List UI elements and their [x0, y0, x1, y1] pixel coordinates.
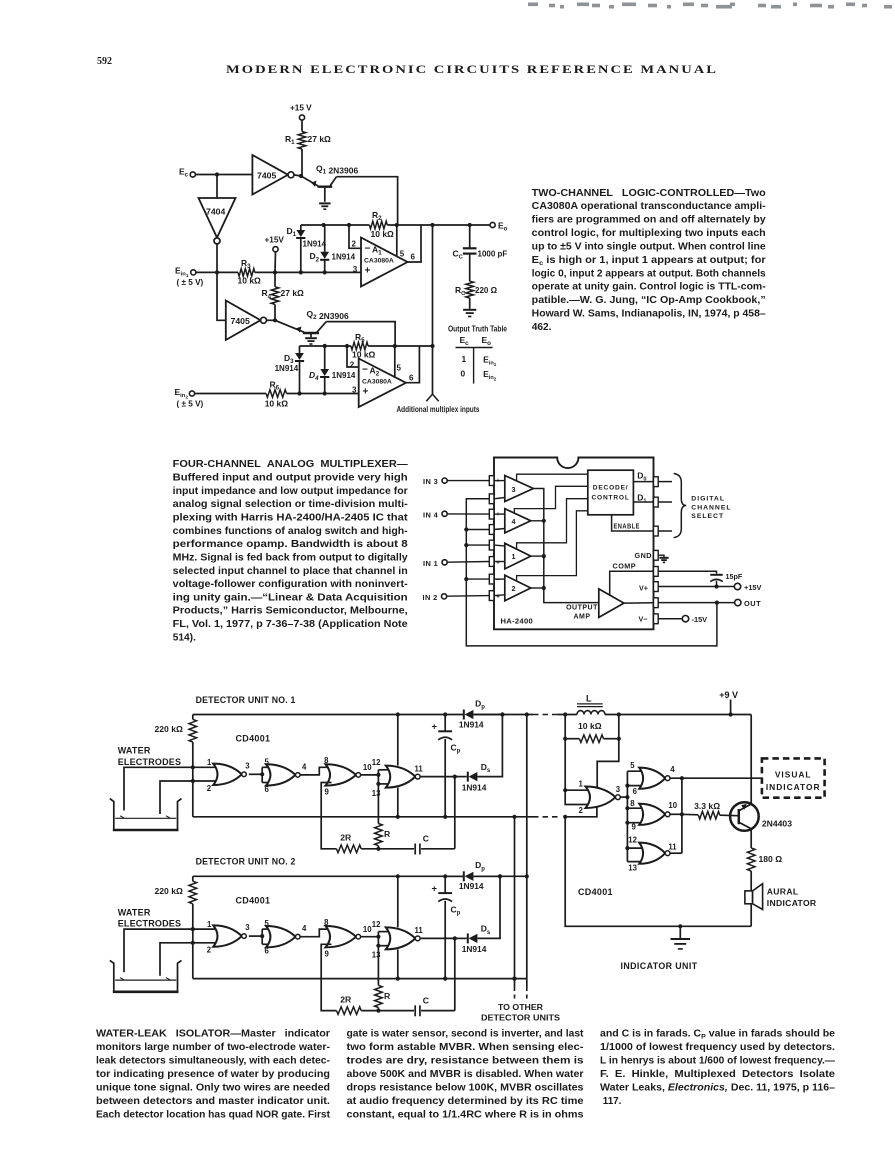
label 15pF — [726, 572, 743, 581]
label 220 kOhm unit 1 — [155, 724, 184, 734]
svg-text:Output Truth Table: Output Truth Table — [448, 323, 507, 333]
label R6 — [270, 380, 280, 392]
svg-text:4: 4 — [512, 517, 516, 526]
wire pin2 junction to bottom rail unit 1 — [192, 781, 194, 817]
label R1 — [285, 134, 295, 146]
wire 220k junction to pin2 unit 1 — [191, 767, 195, 783]
svg-text:5: 5 — [400, 249, 405, 258]
svg-text:+: + — [496, 594, 500, 600]
wire pin2 junction to bottom rail unit 2 — [192, 943, 194, 979]
svg-text:220 kΩ: 220 kΩ — [155, 724, 184, 734]
wire IN3 to pin — [447, 480, 489, 482]
svg-text:Water Leaks, Electronics, Dec.: Water Leaks, Electronics, Dec. 11, 1975,… — [600, 1083, 836, 1094]
wire top rail unit 2 — [193, 874, 529, 878]
svg-text:WATER: WATER — [118, 907, 151, 917]
svg-text:Dp: Dp — [475, 698, 485, 710]
svg-text:1: 1 — [512, 552, 516, 561]
svg-text:10: 10 — [668, 801, 677, 810]
label 10 kOhm R5 — [352, 350, 376, 360]
wire gate1 output to gate2 inputs unit 2 — [249, 929, 272, 944]
wire 220k junction to pin2 unit 2 — [191, 929, 195, 945]
wire top rail unit 1 — [193, 712, 533, 716]
svg-text:combines functions of analog s: combines functions of analog switch and … — [173, 526, 408, 537]
label CD4001 unit 1 — [236, 734, 271, 744]
svg-text:3.3 kΩ: 3.3 kΩ — [694, 801, 720, 811]
text column 1 WATER-LEAK ISOLATOR — [96, 1029, 331, 1121]
svg-text:AURAL: AURAL — [767, 886, 799, 896]
svg-text:9: 9 — [632, 822, 637, 831]
resistor 220k unit 1 — [189, 715, 197, 770]
op-amp A2 CA3080A — [359, 359, 406, 408]
label TO OTHER DETECTOR UNITS — [481, 1002, 560, 1022]
wire Ein1 row left — [196, 271, 238, 273]
resistor R unit 1 — [375, 784, 383, 849]
svg-text:27 kΩ: 27 kΩ — [281, 288, 305, 298]
svg-text:−: − — [365, 244, 371, 255]
svg-text:6: 6 — [411, 253, 416, 262]
pin COMP with wire — [610, 567, 717, 596]
svg-text:2: 2 — [207, 946, 212, 955]
wire electrode 1 unit 1 — [124, 767, 220, 810]
svg-text:D4: D4 — [309, 370, 319, 382]
svg-text:FOUR-CHANNEL ANALOG MULTIPLE: FOUR-CHANNEL ANALOG MULTIPLEXER— — [173, 459, 409, 470]
svg-text:FL, Vol. 1, 1977, p 7-36–7-38: FL, Vol. 1, 1977, p 7-36–7-38 (Applicati… — [173, 619, 408, 630]
NOR gate 4 unit 1 — [386, 766, 420, 788]
svg-text:gate is water sensor, second i: gate is water sensor, second is inverter… — [347, 1029, 585, 1040]
wire indicator ground loop — [565, 817, 751, 929]
svg-text:trodes are dry, resistance bet: trodes are dry, resistance between them … — [347, 1056, 585, 1067]
wire speaker to ground loop — [750, 904, 752, 927]
NOR gate 2 unit 2 — [266, 926, 300, 947]
node IN 4 terminal — [423, 510, 447, 519]
resistor R1 27k — [298, 132, 306, 150]
node Ein2 terminal — [175, 387, 195, 401]
svg-text:CONTROL: CONTROL — [591, 495, 629, 502]
output truth table — [448, 323, 507, 383]
wire 2R to R junction unit 1 — [361, 847, 380, 851]
svg-text:+: + — [432, 722, 438, 733]
wire select line to amp 2 — [517, 511, 588, 581]
svg-text:−: − — [362, 365, 368, 376]
label 180 Ohm — [759, 854, 783, 864]
svg-text:+15 V: +15 V — [290, 104, 312, 113]
svg-text:( ± 5 V): ( ± 5 V) — [177, 278, 204, 287]
wire gate A VSS to bottom rail — [563, 808, 597, 819]
resistor 3.3k — [698, 811, 719, 819]
label COMP — [613, 562, 637, 571]
node Ec input terminal — [179, 167, 195, 179]
svg-text:at audio frequency determined: at audio frequency determined by its RC … — [347, 1096, 585, 1107]
svg-text:10 kΩ: 10 kΩ — [371, 229, 395, 239]
label 220 Ohm — [475, 286, 498, 295]
svg-text:input impedance and low output: input impedance and low output impedance… — [173, 486, 408, 497]
svg-text:1N914: 1N914 — [332, 253, 356, 262]
svg-text:MODERN ELECTRONIC CIRCUITS REF: MODERN ELECTRONIC CIRCUITS REFERENCE MAN… — [226, 64, 718, 76]
label 1N914 D2 — [332, 253, 356, 262]
svg-text:+15V: +15V — [744, 583, 762, 592]
svg-text:L: L — [586, 693, 592, 703]
label Ds unit 1 — [481, 762, 491, 774]
wire VSS from gate 4 unit 1 — [396, 788, 400, 819]
pin labels gate 4 unit 2 — [372, 920, 424, 960]
op-amp A1 CA3080A — [361, 238, 408, 287]
wire bus stub pin9 — [627, 822, 645, 824]
text column 2 — [347, 1029, 585, 1121]
svg-text:unique tone signal. Only two w: unique tone signal. Only two wires are n… — [96, 1083, 330, 1094]
label R unit 1 — [384, 829, 391, 839]
svg-text:DETECTOR UNIT NO. 2: DETECTOR UNIT NO. 2 — [196, 857, 296, 867]
svg-text:11: 11 — [668, 843, 677, 852]
svg-text:12: 12 — [372, 920, 381, 929]
svg-text:ELECTRODES: ELECTRODES — [118, 919, 182, 929]
wire output bus down to additional multiplex inputs — [432, 225, 434, 394]
wire inter-unit line B dashes — [526, 987, 528, 1000]
svg-text:CA3080A: CA3080A — [364, 258, 394, 265]
label 3.3 kOhm — [694, 801, 720, 811]
wire A1 bias row — [301, 223, 490, 227]
label L — [586, 693, 592, 703]
label D2 — [310, 251, 320, 263]
label 220 kOhm unit 2 — [155, 886, 184, 896]
pin OUT with wire — [624, 598, 735, 608]
svg-text:ENABLE: ENABLE — [614, 523, 641, 530]
svg-text:10 kΩ: 10 kΩ — [265, 399, 289, 409]
wire select line to amp 4 — [514, 486, 588, 513]
wire bus stub pin12 — [627, 847, 645, 849]
svg-text:DIGITAL: DIGITAL — [691, 496, 725, 503]
NOR gate C indicator — [639, 804, 670, 825]
wire gate3 pin9 to 2R unit 2 — [321, 944, 336, 1010]
wire gate3 output to gate4 inputs unit 1 — [361, 770, 392, 786]
text block TWO-CHANNEL LOGIC-CONTROLLED — [532, 188, 766, 333]
NOR gate D indicator — [639, 843, 670, 864]
wire 2N4403 collector to 180 ohm — [750, 829, 752, 848]
pin GND — [635, 550, 664, 560]
svg-text:two form astable MVBR. When se: two form astable MVBR. When sensing elec… — [347, 1042, 584, 1053]
svg-text:Products,” Harris Semiconducto: Products,” Harris Semiconductor, Melbour… — [173, 606, 408, 617]
svg-text:−: − — [496, 527, 500, 533]
svg-text:7404: 7404 — [206, 207, 225, 217]
wire bottom rail dashes to indicator — [533, 816, 558, 818]
label Additional multiplex inputs — [397, 404, 480, 414]
pin labels gate D — [628, 836, 677, 873]
diode D3 1N914 — [295, 346, 304, 396]
svg-text:Eo: Eo — [482, 335, 492, 347]
wire gate4 output unit 1 — [421, 776, 467, 778]
svg-text:Ein2: Ein2 — [175, 387, 189, 401]
node +15V terminal for R4 — [265, 235, 285, 251]
wire gate3 pin9 to 2R unit 1 — [321, 783, 336, 849]
label Cc — [453, 249, 464, 261]
svg-text:D1: D1 — [287, 226, 297, 238]
label WATER ELECTRODES unit 2 — [118, 907, 182, 928]
svg-text:514).: 514). — [173, 632, 196, 643]
page number 592 — [97, 56, 112, 67]
svg-text:6: 6 — [265, 947, 270, 956]
svg-text:+: + — [496, 479, 500, 485]
svg-text:1N914: 1N914 — [459, 881, 484, 891]
svg-text:( ± 5 V): ( ± 5 V) — [177, 400, 204, 409]
svg-text:1: 1 — [207, 758, 212, 767]
svg-text:1: 1 — [462, 354, 467, 364]
label OUTPUT AMP — [566, 605, 598, 621]
wire A2 bias row — [300, 344, 435, 348]
svg-text:5: 5 — [397, 364, 402, 373]
capacitor Cc 1000pF — [463, 225, 477, 281]
label Rc — [455, 285, 466, 297]
svg-text:+15V: +15V — [265, 235, 285, 244]
svg-text:INDICATOR: INDICATOR — [766, 782, 821, 792]
diode Ds 1N914 unit 1 — [468, 712, 505, 781]
wire +15V to R1 — [301, 120, 303, 131]
svg-text:analog signal selection or tim: analog signal selection or time-division… — [173, 499, 408, 510]
diode Dp 1N914 unit 2 — [445, 871, 500, 881]
beaker water sensor unit 2 — [110, 960, 182, 991]
svg-text:7405: 7405 — [231, 316, 250, 326]
label Dp unit 2 — [475, 860, 485, 872]
svg-text:11: 11 — [415, 926, 424, 935]
label + Cp unit 1 — [432, 722, 438, 733]
pin D0 with wire — [633, 477, 672, 487]
svg-text:8: 8 — [630, 799, 635, 808]
capacitor C unit 1 — [378, 844, 454, 855]
NOR gate 1 unit 1 — [213, 764, 246, 785]
resistor R2 10k — [369, 221, 387, 229]
svg-text:5: 5 — [265, 919, 270, 928]
resistor R6 10k — [266, 390, 286, 398]
label 1N914 Dp unit 2 — [459, 881, 484, 891]
resistor Rc 220 ohm — [466, 281, 474, 309]
pin 2 label A1 — [352, 239, 357, 248]
svg-text:10 kΩ: 10 kΩ — [352, 350, 376, 360]
svg-text:voltage-follower configuration: voltage-follower configuration with noni… — [173, 579, 408, 590]
svg-text:L in henrys is about 1/600 of: L in henrys is about 1/600 of lowest fre… — [600, 1056, 835, 1067]
svg-text:Cp: Cp — [451, 743, 461, 755]
svg-text:R3: R3 — [241, 258, 251, 270]
wire feedback bus left — [464, 499, 717, 646]
wire VSS from gate 4 unit 2 — [396, 949, 400, 980]
label CD4001 indicator — [578, 887, 613, 897]
box VISUAL INDICATOR — [762, 758, 825, 797]
wire IN4 to pin — [447, 513, 489, 515]
svg-text:2: 2 — [579, 806, 584, 815]
svg-text:IN 1: IN 1 — [423, 559, 438, 568]
svg-text:0: 0 — [461, 368, 466, 378]
label 1000 pF — [478, 250, 508, 259]
svg-text:Ein1: Ein1 — [483, 355, 497, 368]
wire 7405 second output to Q2 — [267, 319, 276, 321]
label 2N4403 — [762, 818, 792, 828]
svg-text:SELECT: SELECT — [691, 513, 724, 520]
wire gate C output — [670, 813, 682, 815]
label 10 kOhm R3 — [238, 276, 262, 286]
wire feedback stub amp2 minus — [466, 578, 489, 580]
label INDICATOR UNIT — [621, 961, 698, 971]
svg-text:Ec is high or 1, input 1 appea: Ec is high or 1, input 1 appears at outp… — [532, 255, 766, 267]
pin 3 label A2 — [352, 385, 357, 394]
svg-text:IN 2: IN 2 — [423, 593, 438, 602]
label 10 kOhm indicator — [578, 721, 602, 731]
svg-text:C: C — [423, 834, 429, 844]
svg-text:VISUAL: VISUAL — [775, 769, 812, 779]
svg-text:leak detectors simultaneously,: leak detectors simultaneously, with each… — [96, 1056, 330, 1067]
wire indicator input bus — [625, 771, 629, 861]
wire Ein2 to R6 — [195, 393, 267, 395]
wire bus stub pin13 — [627, 861, 645, 863]
svg-text:DETECTOR UNIT NO. 1: DETECTOR UNIT NO. 1 — [196, 695, 296, 705]
wire gate output bus — [680, 778, 684, 853]
amplifier 4 HA-2400 — [494, 509, 531, 534]
pin V+ with wire to +15V — [639, 582, 734, 593]
label 27 kOhm R4 — [281, 288, 305, 298]
svg-text:1N914: 1N914 — [303, 239, 327, 248]
scan artifact dashes at top edge — [528, 3, 892, 9]
svg-text:D2: D2 — [310, 251, 320, 263]
svg-text:9: 9 — [325, 949, 330, 958]
transistor 2N4403 — [720, 802, 759, 831]
resistor R3 10k — [238, 269, 255, 277]
svg-text:Q1 2N3906: Q1 2N3906 — [316, 164, 358, 176]
svg-text:2R: 2R — [340, 833, 352, 843]
svg-text:Each detector location has qua: Each detector location has quad NOR gate… — [96, 1110, 331, 1121]
wire bus stub pin5 — [627, 770, 645, 772]
arrow additional multiplex inputs — [426, 394, 438, 401]
svg-text:tor indicating presence of wat: tor indicating presence of water by prod… — [96, 1069, 330, 1080]
wire inter-unit line A dashes — [514, 987, 516, 1000]
ground at GND pin — [659, 558, 668, 563]
wire 2N4403 emitter to rail — [750, 715, 752, 805]
node OUT terminal — [735, 599, 762, 608]
svg-text:WATER: WATER — [118, 746, 151, 756]
wire electrode 1 unit 2 — [124, 929, 220, 972]
pin 2 label A2 — [350, 361, 355, 370]
svg-text:12: 12 — [628, 836, 637, 845]
svg-text:performance opamp. Bandwidth i: performance opamp. Bandwidth is about 8 — [173, 539, 408, 550]
svg-text:+: + — [496, 512, 500, 518]
svg-text:HA-2400: HA-2400 — [501, 617, 534, 626]
svg-text:DECODE/: DECODE/ — [593, 485, 629, 492]
svg-text:R: R — [384, 991, 391, 1001]
wire Ec to 7405 input — [195, 172, 252, 176]
svg-text:3: 3 — [616, 785, 621, 794]
capacitor C unit 2 — [378, 1005, 454, 1016]
pin 3 label A1 — [353, 265, 358, 274]
wire gate2 output to gate3 pin8 unit 2 — [300, 929, 331, 937]
node +15V terminal for R1 — [290, 104, 312, 121]
label Cp unit 2 — [451, 904, 461, 916]
pin labels gate 4 unit 1 — [372, 758, 424, 798]
svg-text:3: 3 — [245, 761, 250, 770]
pin labels gate A — [579, 779, 621, 815]
svg-text:3: 3 — [352, 385, 357, 394]
NOR gate 1 unit 2 — [213, 925, 246, 946]
wire feedback stub amp1 minus — [466, 544, 489, 546]
label AURAL INDICATOR — [767, 886, 817, 908]
wire Ein1 row right to A1 pin3 — [255, 270, 361, 274]
svg-text:TO OTHER: TO OTHER — [498, 1002, 544, 1012]
wire A1 output pin6 up to row — [408, 225, 422, 262]
label C unit 1 — [423, 834, 429, 844]
NOR gate B indicator — [639, 768, 670, 789]
wire 7405 output to Q1 emitter node — [294, 175, 301, 176]
svg-text:2: 2 — [207, 784, 212, 793]
node -15V terminal — [682, 615, 707, 624]
diode Ds 1N914 unit 2 — [468, 874, 502, 943]
svg-text:4: 4 — [670, 765, 675, 774]
label DETECTOR UNIT NO. 1 — [196, 695, 296, 705]
node IN 1 terminal — [423, 559, 447, 568]
svg-text:1/1000 of lowest frequency use: 1/1000 of lowest frequency used by detec… — [600, 1042, 835, 1053]
pin 5 label A2 — [397, 364, 402, 373]
svg-text:CA3080A: CA3080A — [362, 379, 392, 386]
wire C up to gate4 output unit 1 — [453, 775, 457, 849]
pin 5 label A1 — [400, 249, 405, 258]
svg-text:+: + — [363, 387, 369, 398]
svg-text:1N914: 1N914 — [462, 782, 487, 792]
svg-text:constant, equal to 1/1.4RC whe: constant, equal to 1/1.4RC where R is in… — [347, 1110, 585, 1121]
svg-text:drops resistance below 100K, M: drops resistance below 100K, MVBR oscill… — [347, 1083, 585, 1094]
svg-text:control logic, for multiplexin: control logic, for multiplexing two inpu… — [532, 228, 766, 239]
wire Ec junction down to 7404 — [216, 175, 218, 199]
svg-text:180 Ω: 180 Ω — [759, 854, 783, 864]
pin labels gate 1 unit 1 — [207, 758, 251, 793]
NOR gate 3 unit 1 — [326, 764, 361, 785]
resistor 220k unit 2 — [189, 876, 197, 931]
label D4 — [309, 370, 319, 382]
resistor 2R unit 1 — [337, 845, 362, 853]
wire R1 to 7405 output node — [299, 149, 303, 178]
wire Ein2 row to A2 pin3 — [287, 393, 359, 395]
op-amp OUTPUT AMP — [599, 589, 624, 618]
label Q2 2N3906 — [307, 309, 349, 321]
inverter 7404 — [199, 198, 236, 244]
label +-5V Ein1 — [177, 278, 204, 287]
svg-text:Ec: Ec — [460, 335, 470, 347]
svg-text:Ds: Ds — [481, 924, 491, 936]
svg-text:IN 4: IN 4 — [423, 510, 439, 519]
svg-text:1N914: 1N914 — [462, 944, 487, 954]
svg-text:ing unity gain.—“Linear & Data: ing unity gain.—“Linear & Data Acquisiti… — [173, 592, 408, 603]
svg-text:Additional multiplex inputs: Additional multiplex inputs — [397, 404, 480, 414]
wire bottom rail unit 2 — [193, 977, 527, 981]
ground indicator unit — [671, 939, 691, 949]
capacitor Cp unit 2 — [438, 874, 452, 981]
svg-text:AMP: AMP — [573, 614, 590, 621]
svg-text:Ec: Ec — [179, 167, 189, 179]
svg-text:monitors large number of two-e: monitors large number of two-electrode w… — [96, 1042, 330, 1053]
svg-text:OUT: OUT — [744, 599, 761, 608]
svg-text:DETECTOR UNITS: DETECTOR UNITS — [481, 1012, 560, 1022]
svg-text:CHANNEL: CHANNEL — [691, 504, 731, 511]
label Cp unit 1 — [451, 743, 461, 755]
svg-text:Buffered input and output prov: Buffered input and output provide very h… — [173, 473, 408, 484]
label ENABLE — [614, 523, 641, 530]
svg-text:−: − — [496, 497, 500, 503]
svg-text:220 kΩ: 220 kΩ — [155, 886, 184, 896]
wire ground stub — [679, 926, 681, 938]
svg-text:−: − — [496, 543, 500, 549]
wire bus stub pin6 — [627, 785, 645, 787]
label D3 — [284, 353, 294, 365]
svg-text:1N914: 1N914 — [459, 719, 484, 729]
svg-text:3: 3 — [353, 265, 358, 274]
wire bottom rail unit 1 — [193, 815, 533, 819]
label Q1 2N3906 — [316, 164, 358, 176]
svg-text:3: 3 — [512, 485, 516, 494]
svg-text:CA3080A operational transcondu: CA3080A operational transconductance amp… — [532, 201, 766, 212]
wire +15V down to Ein1 row — [274, 252, 277, 273]
svg-text:V−: V− — [639, 615, 648, 624]
